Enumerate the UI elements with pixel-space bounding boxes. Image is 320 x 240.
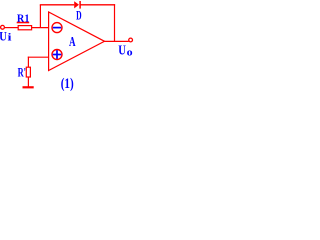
wire R1 to op-amp [32, 27, 49, 29]
resistor R1 [18, 26, 31, 30]
feedback top wire right [80, 4, 115, 6]
op-amp A triangle [49, 12, 105, 71]
feedback riser wire [39, 5, 41, 28]
wire input to R1 [5, 27, 19, 29]
ground bar [23, 86, 34, 88]
label Uo [118, 43, 133, 58]
diode D [74, 1, 80, 9]
minus sign [53, 27, 61, 29]
feedback down wire [114, 4, 116, 41]
input terminal [1, 25, 5, 29]
svg-text:i: i [8, 31, 12, 43]
R-prime riser [27, 57, 29, 68]
feedback top wire left [40, 4, 74, 6]
output terminal [129, 38, 133, 42]
label Ui [0, 30, 11, 44]
svg-text:(1): (1) [61, 76, 74, 92]
R1 underline [17, 22, 30, 24]
non-inverting wire [28, 56, 49, 58]
resistor R-prime [26, 67, 30, 77]
svg-text:o: o [127, 47, 134, 59]
svg-text:U: U [0, 30, 7, 44]
svg-text:U: U [118, 43, 126, 58]
output wire [105, 40, 129, 42]
svg-text:A: A [69, 35, 76, 50]
svg-text:R': R' [18, 66, 26, 80]
plus sign [53, 50, 62, 59]
ground stem [27, 77, 29, 87]
inverting input circle [52, 23, 62, 33]
non-inverting input circle [52, 50, 62, 60]
svg-text:D: D [76, 7, 82, 22]
